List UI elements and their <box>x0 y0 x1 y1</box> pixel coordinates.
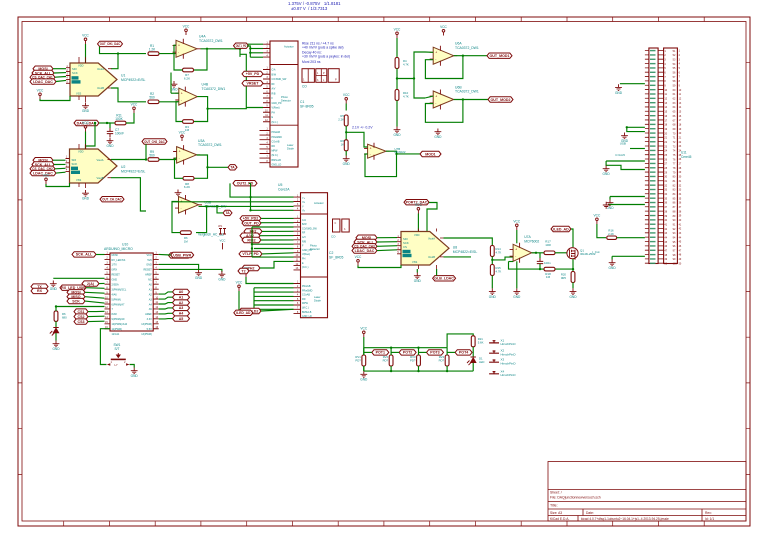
wire c2 m1 <box>261 217 294 219</box>
svg-text:38: 38 <box>679 210 682 213</box>
wire u10 gnd1 <box>159 264 199 269</box>
global label OUT_CH1_DAC <box>98 41 123 46</box>
wire R7 to inv <box>174 45 183 70</box>
wire U8 voutA <box>444 238 493 245</box>
svg-text:13: 13 <box>679 102 682 105</box>
C2 middle pins <box>294 218 301 270</box>
svg-text:OUT_CH2_DAC: OUT_CH2_DAC <box>144 140 165 144</box>
svg-text:SF_8R05: SF_8R05 <box>329 256 343 260</box>
svg-text:PD?: PD? <box>439 358 445 362</box>
svg-text:LDAC_DAC: LDAC_DAC <box>33 80 53 84</box>
test pin X3 <box>489 360 499 362</box>
C2 bottom pins <box>294 284 301 314</box>
power GND u11b <box>621 133 628 139</box>
svg-text:560: 560 <box>149 153 155 157</box>
svg-text:-: - <box>179 156 180 160</box>
svg-text:VDD: VDD <box>78 150 84 154</box>
global label GLB_LPD <box>233 181 257 186</box>
svg-text:29: 29 <box>679 171 682 174</box>
svg-text:4: 4 <box>679 63 681 66</box>
wire OUT_CH2 tap <box>145 144 147 159</box>
wire u10 r6row <box>56 306 105 308</box>
svg-text:C: C <box>335 222 337 225</box>
wires U10 right bank <box>159 292 173 294</box>
svg-text:PRwGB: PRwGB <box>272 131 281 134</box>
led D2 <box>50 328 59 336</box>
glabel U10 L1 <box>72 252 96 257</box>
svg-text:4.7K: 4.7K <box>403 94 409 98</box>
svg-text:CO/SMD_SW: CO/SMD_SW <box>302 227 317 230</box>
svg-text:5: 5 <box>679 67 681 70</box>
global label CSPD <box>169 253 191 258</box>
wire U6A out <box>454 55 487 57</box>
wire glab ladder4 <box>447 351 455 353</box>
resistor R8 <box>183 177 194 181</box>
wire gnd u7a <box>516 261 518 288</box>
U6A feedback <box>425 56 463 79</box>
resistor R17 <box>544 251 555 255</box>
svg-text:13(PWM): 13(PWM) <box>141 323 152 326</box>
svg-text:GND: GND <box>609 266 617 270</box>
svg-text:HirschPinD: HirschPinD <box>501 342 517 346</box>
wires U2 left labels <box>53 159 66 161</box>
svg-text:GND: GND <box>82 197 90 201</box>
resistor R4 <box>395 58 399 69</box>
glabel T2 mid <box>238 268 249 273</box>
svg-text:OUT_PD: OUT_PD <box>244 221 259 225</box>
C2 section lines <box>301 214 328 277</box>
svg-text:PRwSMD: PRwSMD <box>272 136 283 139</box>
junction VoutA <box>117 52 119 54</box>
wire U7A out <box>532 252 544 254</box>
svg-text:GND: GND <box>569 295 577 299</box>
svg-text:GND: GND <box>343 162 351 166</box>
switch SW1 bar <box>111 358 126 360</box>
svg-text:R/B: R/B <box>302 240 306 243</box>
svg-text:PD?: PD? <box>383 358 389 362</box>
power GND R10 <box>394 127 401 133</box>
resistor RV2 <box>389 355 393 366</box>
svg-text:GND: GND <box>50 287 58 291</box>
svg-text:20: 20 <box>679 132 682 135</box>
jumper JP1 <box>219 229 226 235</box>
svg-text:VoutB: VoutB <box>97 176 104 180</box>
resistor R21 <box>471 336 475 347</box>
svg-text:8/A8: 8/A8 <box>112 313 118 316</box>
svg-text:5.5V: 5.5V <box>147 328 152 331</box>
svg-text:TCA0372_DW1: TCA0372_DW1 <box>198 143 222 147</box>
wire ladder rail top <box>364 347 447 349</box>
svg-text:MCP4922=E/SL: MCP4922=E/SL <box>121 170 146 174</box>
wire R1 to U4A <box>159 51 176 54</box>
resistor R7 <box>183 68 194 72</box>
glabel PH2 <box>242 265 260 270</box>
svg-text:48: 48 <box>679 254 682 257</box>
svg-text:VDD: VDD <box>414 233 420 237</box>
svg-text:VDD: VDD <box>78 64 84 68</box>
wire U3A out <box>197 155 228 167</box>
glabel U10 L4 <box>67 298 85 303</box>
svg-text:27: 27 <box>679 163 682 166</box>
resistor R9 <box>148 158 159 162</box>
svg-text:11: 11 <box>679 93 682 96</box>
svg-text:21: 21 <box>679 137 682 140</box>
svg-text:A3: A3 <box>179 306 184 310</box>
glabel U10 L9 <box>74 319 88 324</box>
resistor R15 <box>490 265 494 276</box>
wire GLB_LPD <box>249 183 251 210</box>
svg-text:PH: PH <box>272 111 276 114</box>
svg-text:A4: A4 <box>179 312 184 316</box>
svg-text:Id: 1/1: Id: 1/1 <box>705 517 714 521</box>
svg-text:C/A: C/A <box>302 219 306 222</box>
wire q1 src <box>572 269 574 271</box>
wire div tap <box>397 52 425 79</box>
switch SW1 arrow <box>117 353 121 358</box>
U2 left pins <box>66 159 70 172</box>
svg-text:SF-8R05: SF-8R05 <box>300 105 314 109</box>
svg-text:Size: A3: Size: A3 <box>550 511 562 515</box>
svg-text:U2: U2 <box>121 165 125 169</box>
svg-text:32: 32 <box>679 184 682 187</box>
wire u11 bot <box>612 255 645 257</box>
resistor R19 <box>571 272 575 283</box>
svg-text:SCK: SCK <box>72 299 80 303</box>
wire u10 gndrow <box>53 277 104 279</box>
svg-text:16: 16 <box>679 115 682 118</box>
svg-text:-: - <box>181 98 182 102</box>
svg-text:-: - <box>181 206 182 210</box>
global label OUT1_PD <box>234 43 249 48</box>
svg-text:TCA0372_DW1: TCA0372_DW1 <box>455 90 479 94</box>
svg-text:6.2K: 6.2K <box>184 185 190 189</box>
svg-text:23: 23 <box>679 145 682 148</box>
svg-text:SCK: SCK <box>72 71 78 75</box>
svg-text:OUT2_PD: OUT2_PD <box>237 182 254 186</box>
svg-text:MPW: MPW <box>302 302 309 305</box>
connector CO-A <box>302 69 314 83</box>
svg-text:GND: GND <box>82 109 90 113</box>
wire r16 pin <box>617 237 645 239</box>
wire R6 top <box>55 307 57 312</box>
svg-text:MOSI: MOSI <box>112 254 119 257</box>
svg-text:10: 10 <box>679 89 682 92</box>
svg-text:Title:: Title: <box>550 504 558 508</box>
wire glab ladder2 <box>391 351 399 353</box>
svg-text:5(PWM): 5(PWM) <box>112 298 121 301</box>
svg-text:Rev:: Rev: <box>705 511 712 515</box>
op-amp U4A <box>176 40 197 57</box>
svg-text:GND: GND <box>360 378 368 382</box>
svg-text:RX: RX <box>37 289 43 293</box>
svg-text:40: 40 <box>679 219 682 222</box>
wire glab ladder1 <box>364 351 372 353</box>
wire u11 grp3 <box>630 148 645 150</box>
mosfet Q1 <box>567 248 578 259</box>
svg-text:RF: RF <box>272 83 276 86</box>
wire R3 to inv <box>176 102 183 122</box>
global label SDI2 <box>33 158 53 163</box>
svg-text:GND: GND <box>218 278 226 282</box>
svg-text:47: 47 <box>679 249 682 252</box>
wire c1 mid2 <box>262 82 264 84</box>
U2 out stubs <box>108 160 112 178</box>
power GND R15 <box>489 288 496 294</box>
svg-text:GND_LD: GND_LD <box>302 315 312 318</box>
svg-text:VSS: VSS <box>76 178 81 182</box>
wire U6A in+ <box>425 51 433 53</box>
wire RV1 <box>363 348 365 355</box>
svg-text:CS: CS <box>403 245 407 249</box>
svg-text:RD: RD <box>302 298 306 301</box>
svg-text:GND: GND <box>146 264 152 267</box>
svg-text:CS3: CS3 <box>78 320 85 324</box>
svg-text:12: 12 <box>679 97 682 100</box>
svg-text:KiCad E.D.A.: KiCad E.D.A. <box>550 517 570 521</box>
resistor R5b <box>344 140 348 151</box>
op-amp U3B <box>179 197 199 214</box>
global label LDAC2 <box>30 170 56 175</box>
svg-text:1M: 1M <box>185 128 190 132</box>
wire VCC left to U1 <box>40 96 70 101</box>
svg-text:File: DAQjunctionnewversuch.sc: File: DAQjunctionnewversuch.sch <box>550 495 601 499</box>
svg-text:1M: 1M <box>184 240 189 244</box>
glabel ILED mid <box>234 310 253 315</box>
resistor R16 <box>607 236 617 239</box>
svg-text:Laser: Laser <box>314 295 321 299</box>
svg-text:C=km5: C=km5 <box>615 153 625 157</box>
glabel MOD1 <box>420 151 441 156</box>
wire vcc u8 left <box>358 265 401 268</box>
svg-text:TA: TA <box>225 211 230 215</box>
wire bus C1 middle <box>246 107 263 109</box>
svg-text:Diode: Diode <box>314 298 321 302</box>
svg-text:OUT1_PD: OUT1_PD <box>236 44 247 48</box>
ic U10 body <box>110 253 153 331</box>
svg-text:RD: RD <box>272 145 276 148</box>
wire u10 la <box>99 282 105 284</box>
svg-text:VCC: VCC <box>415 203 422 207</box>
wire u11 grp4 <box>610 196 645 198</box>
svg-text:NC: NC <box>148 279 152 282</box>
wire glb_ld2 <box>436 269 438 276</box>
svg-text:V(Rset): V(Rset) <box>302 253 310 256</box>
svg-text:9: 9 <box>679 84 681 87</box>
svg-text:2: 2 <box>679 54 681 57</box>
wire c2 blast <box>261 309 294 311</box>
svg-text:VCC: VCC <box>343 93 350 97</box>
resistor R2 <box>148 100 159 104</box>
glabel U10 L2 <box>67 290 85 295</box>
svg-text:C2: C2 <box>329 251 333 255</box>
resistor R5a <box>344 115 348 126</box>
svg-text:BMSxLB: BMSxLB <box>302 311 312 314</box>
svg-text:A/V: A/V <box>302 236 306 239</box>
svg-text:4/A6: 4/A6 <box>112 293 118 296</box>
resistor R3 <box>183 120 194 124</box>
wires u10 l234 <box>85 291 105 294</box>
wire R4b to inv <box>172 202 180 233</box>
svg-text:+: + <box>435 51 437 55</box>
svg-text:U1: U1 <box>121 74 125 78</box>
wire c2 m10 <box>260 261 294 268</box>
svg-text:GND: GND <box>615 91 623 95</box>
global label DAC_LDAC <box>74 120 99 125</box>
svg-text:R/B: R/B <box>272 92 276 95</box>
connector C1 body <box>270 41 298 167</box>
svg-text:1M: 1M <box>546 275 551 279</box>
wire div to opamp <box>346 132 367 147</box>
resistor R11 <box>115 121 126 125</box>
U1 left pins <box>66 68 70 84</box>
svg-text:0/RX: 0/RX <box>112 269 118 272</box>
svg-text:PRwSMD: PRwSMD <box>302 289 313 292</box>
glabel BLAST <box>239 308 261 313</box>
glabel ladder4 <box>455 350 472 355</box>
svg-text:2: 2 <box>124 360 126 364</box>
resistor RV3 <box>417 355 421 366</box>
glabel U10 LB <box>60 285 86 290</box>
wire r19 gnd <box>572 283 574 289</box>
svg-text:+: + <box>435 94 437 98</box>
test pin X2 <box>489 351 499 353</box>
svg-text:Y-: Y- <box>302 205 304 208</box>
svg-text:VCC: VCC <box>43 174 50 178</box>
svg-text:1K: 1K <box>341 142 345 146</box>
power GND ladder <box>360 371 367 377</box>
wire gnd u8 <box>416 269 418 273</box>
svg-text:Date:: Date: <box>586 511 594 515</box>
svg-text:USB_PWR: USB_PWR <box>173 253 191 257</box>
resistor R1 <box>148 52 159 56</box>
wire ladder rail bottom <box>364 370 473 372</box>
svg-text:GND: GND <box>434 135 442 139</box>
wire U6C out <box>386 151 420 154</box>
svg-text:Detector: Detector <box>281 98 291 102</box>
svg-text:2.2K: 2.2K <box>338 117 344 121</box>
label boxB1 <box>223 210 232 215</box>
svg-text:C1: C1 <box>300 100 304 104</box>
global label CS2 <box>30 166 55 171</box>
svg-text:CGxAB: CGxAB <box>302 294 310 297</box>
U3A feedback <box>194 167 208 178</box>
U4B feedback <box>194 109 208 122</box>
wire VoutA U1 <box>111 54 118 69</box>
resistor R14 <box>490 246 494 257</box>
glabels U10 right bank <box>173 289 190 294</box>
svg-text:+5V_PD: +5V_PD <box>246 72 260 76</box>
svg-text:GND_LD: GND_LD <box>272 163 282 166</box>
wires U1 left labels <box>53 68 66 70</box>
glabel OUT_A2 <box>488 97 513 102</box>
svg-text:46: 46 <box>679 245 682 248</box>
C1 middle pins <box>263 70 270 122</box>
power GND U1 <box>82 103 89 109</box>
power GND R19 <box>570 288 577 294</box>
svg-text:OUT_MOD1: OUT_MOD1 <box>490 54 510 58</box>
power GND U2 <box>82 190 89 196</box>
test pin X4 <box>489 372 499 374</box>
svg-text:VCC: VCC <box>360 327 367 331</box>
svg-text:TCA0372_DW1: TCA0372_DW1 <box>202 87 226 91</box>
power GND U6B <box>435 129 442 135</box>
capacitor C7 <box>107 128 113 137</box>
glabel far left2 <box>31 288 48 293</box>
power GND R6 <box>53 341 60 347</box>
svg-text:VCC: VCC <box>37 89 44 93</box>
wire SW1 left <box>100 329 110 365</box>
glabel ladder1 <box>372 350 389 355</box>
svg-text:-: - <box>435 101 436 105</box>
U10 left pin stubs <box>105 255 111 329</box>
wire u10 l1 <box>96 254 105 256</box>
glabel U8 L4 <box>352 248 377 253</box>
connector CO-C <box>328 69 339 83</box>
led D1 <box>467 357 476 365</box>
glabel C2 m1 <box>240 216 261 221</box>
svg-text:-: - <box>515 254 516 258</box>
wire RV3 <box>418 348 420 355</box>
svg-text:1: 1 <box>111 360 113 364</box>
svg-text:Sheet: /: Sheet: / <box>550 491 562 495</box>
wire ladder top stub <box>363 337 365 371</box>
C1 bottom pins <box>260 131 271 163</box>
U10 right pin stubs <box>153 255 159 329</box>
power GND C7 <box>107 138 114 144</box>
capacitor C8 <box>537 258 543 267</box>
svg-text:+: + <box>178 44 180 48</box>
wire R11 VCC <box>126 113 134 123</box>
wire VoutB U2 <box>111 178 146 211</box>
svg-text:Cere2A: Cere2A <box>278 188 290 192</box>
resistor R18 <box>544 267 555 271</box>
svg-text:+40 mV/V (puls a spike del): +40 mV/V (puls a spike del) <box>302 45 344 49</box>
svg-text:P: P <box>335 78 337 82</box>
resistor RV1 <box>362 355 366 366</box>
svg-text:10(PWM)/A10: 10(PWM)/A10 <box>112 323 128 326</box>
connector U11 col2 <box>664 48 678 264</box>
svg-text:GND: GND <box>195 276 203 280</box>
power GND div <box>343 156 350 162</box>
wire div mid <box>345 126 347 140</box>
svg-text:(M.C.): (M.C.) <box>302 307 309 310</box>
svg-text:+30 mV/V (puls a peyles: in de: +30 mV/V (puls a peyles: in del) <box>302 54 350 58</box>
U1 out stubs <box>108 69 112 88</box>
glabel C2 m4 <box>244 229 262 234</box>
U8 left pins <box>397 238 401 254</box>
svg-text:POT4: POT4 <box>459 351 468 355</box>
svg-text:A0: A0 <box>179 290 184 294</box>
svg-text:34: 34 <box>679 193 682 196</box>
global label GLB2 <box>100 197 124 202</box>
wire LDAC down to U2 <box>86 123 96 149</box>
op-amp U4B <box>179 88 198 105</box>
wire SW1 right <box>130 365 135 368</box>
wire U4B plus in <box>171 92 179 94</box>
svg-text:VCC: VCC <box>147 254 152 257</box>
wire OUT_CH1_DAC tap <box>100 47 147 54</box>
svg-text:OUT_CH1_DAC: OUT_CH1_DAC <box>100 42 121 46</box>
svg-text:MC6022: MC6022 <box>395 150 406 154</box>
wire VCC left to U2 <box>46 183 70 187</box>
svg-text:CS2: CS2 <box>78 315 85 319</box>
svg-text:Diode: Diode <box>287 146 294 150</box>
svg-text:kicad 4.0.7+dfsg1-1ubuntu2~16.: kicad 4.0.7+dfsg1-1ubuntu2~16.04.1+js1-.… <box>581 517 669 521</box>
svg-text:A5: A5 <box>179 317 184 321</box>
svg-text:3.3V: 3.3V <box>147 318 152 321</box>
svg-text:S/T: S/T <box>115 347 120 351</box>
svg-text:6(PWM)/A7: 6(PWM)/A7 <box>112 303 126 306</box>
